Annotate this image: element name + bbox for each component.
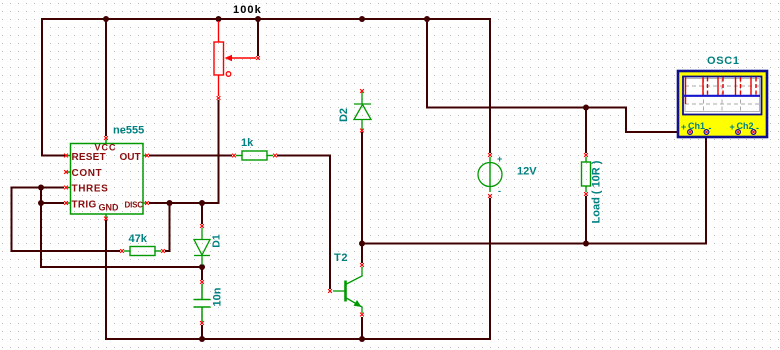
- svg-text:+: +: [497, 154, 502, 164]
- svg-text:ne555: ne555: [113, 125, 144, 137]
- svg-text:TRIG: TRIG: [72, 200, 97, 211]
- svg-text:CONT: CONT: [72, 168, 103, 179]
- svg-text:47k: 47k: [129, 233, 148, 245]
- svg-text:VCC: VCC: [94, 143, 116, 153]
- svg-text:+: +: [730, 122, 735, 132]
- svg-text:Load ( 10R ): Load ( 10R ): [591, 160, 603, 223]
- svg-text:10n: 10n: [212, 287, 224, 306]
- svg-text:OSC1: OSC1: [707, 55, 740, 67]
- svg-text:-: -: [498, 186, 501, 196]
- svg-text:GND: GND: [99, 203, 120, 213]
- svg-text:1k: 1k: [241, 137, 254, 149]
- svg-text:100k: 100k: [233, 4, 262, 16]
- svg-text:12V: 12V: [517, 166, 537, 178]
- svg-text:D1: D1: [211, 234, 223, 248]
- svg-text:THRES: THRES: [72, 184, 109, 195]
- svg-text:RESET: RESET: [72, 152, 106, 163]
- svg-text:T2: T2: [334, 252, 348, 264]
- svg-text:D2: D2: [338, 108, 350, 122]
- svg-text:+: +: [681, 122, 686, 132]
- svg-text:DISC: DISC: [125, 201, 144, 210]
- svg-text:OUT: OUT: [120, 152, 141, 163]
